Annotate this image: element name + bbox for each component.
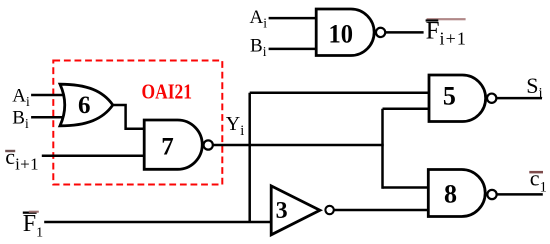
wire inverter 3 output to gate 8 xyxy=(329,209,430,212)
wire to gate 5 upper input xyxy=(250,92,430,95)
wire gate 5 output S_i xyxy=(492,97,542,100)
nand gate 8 xyxy=(428,170,485,217)
bubble gate 8 xyxy=(487,190,496,199)
svg-text:OAI21: OAI21 xyxy=(142,80,193,104)
svg-text:10: 10 xyxy=(328,19,353,48)
or gate 6 xyxy=(60,84,113,126)
wire c_i+1 to gate 7 xyxy=(42,155,146,158)
wire Y_i: gate 7 output to vertical node xyxy=(208,144,384,147)
wire B_i to gate 10 xyxy=(269,48,317,51)
nand gate 7 xyxy=(144,120,202,169)
nand gate 5 xyxy=(429,75,486,122)
wire A_i to gate 10 xyxy=(269,17,317,20)
wire A_i to gate 6 xyxy=(31,94,67,97)
svg-text:7: 7 xyxy=(161,133,174,160)
svg-text:3: 3 xyxy=(276,198,288,224)
bubble inverter 3 xyxy=(325,206,333,214)
wire to gate 5 lower input xyxy=(383,108,431,111)
bubble gate 10 xyxy=(376,28,385,37)
svg-text:8: 8 xyxy=(444,180,457,209)
wire vertical node B xyxy=(381,109,384,189)
svg-text:5: 5 xyxy=(443,82,456,111)
wire F_1 to inverter 3 xyxy=(44,221,272,224)
bubble gate 5 xyxy=(487,94,496,103)
inverter 3 xyxy=(271,186,320,235)
wire gate 8 output c_i xyxy=(492,193,543,196)
wire to gate 8 upper input xyxy=(383,186,431,189)
wire vertical node A xyxy=(248,93,251,222)
nand gate 10 xyxy=(316,9,374,56)
OAI21 dashed red box xyxy=(53,61,222,185)
svg-text:6: 6 xyxy=(78,92,91,119)
wire gate 10 output xyxy=(381,31,424,34)
bubble gate 7 xyxy=(204,140,213,149)
wire gate 6 output to gate 7 input xyxy=(113,105,146,129)
wire B_i to gate 6 xyxy=(31,116,67,119)
